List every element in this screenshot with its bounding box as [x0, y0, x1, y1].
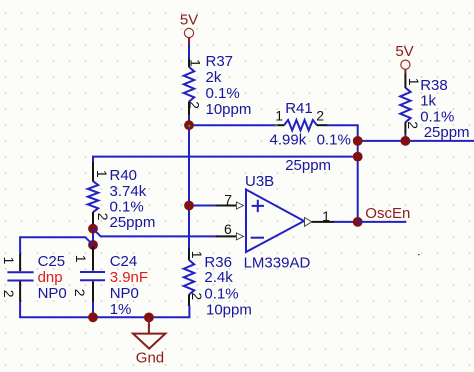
svg-text:2: 2	[72, 289, 88, 297]
op-amp U3B	[244, 173, 311, 272]
resistor R40	[88, 162, 156, 231]
wire output to OscEn	[334, 221, 358, 223]
wire R41 pin 2 to output node	[327, 125, 358, 222]
svg-text:NP0: NP0	[110, 285, 139, 302]
svg-text:2: 2	[316, 107, 324, 123]
wire R40 to output node	[93, 156, 358, 158]
svg-text:1: 1	[1, 257, 17, 265]
stray mark	[418, 254, 420, 255]
svg-text:0.1%: 0.1%	[204, 285, 238, 302]
resistor R37	[184, 53, 252, 118]
capacitor C25	[1, 253, 67, 302]
wire output pull-up rail	[358, 140, 474, 142]
power port 5V (right)	[395, 43, 413, 74]
svg-text:1: 1	[188, 59, 204, 67]
wire 5V to R37	[188, 44, 190, 60]
junction R40-pin6 node	[88, 224, 98, 234]
svg-text:1: 1	[94, 170, 110, 178]
wire node to comparator pin 6	[93, 229, 217, 237]
svg-text:10ppm: 10ppm	[206, 302, 252, 319]
resistor R38	[400, 74, 469, 142]
svg-text:1: 1	[73, 255, 89, 263]
svg-text:LM339AD: LM339AD	[244, 254, 311, 271]
svg-text:C25: C25	[38, 253, 66, 270]
junction output-R40 node	[353, 152, 363, 162]
svg-text:2: 2	[1, 290, 17, 298]
svg-text:1: 1	[275, 107, 283, 123]
junction C24 bottom	[88, 312, 98, 322]
svg-text:25ppm: 25ppm	[110, 214, 156, 231]
svg-text:7: 7	[224, 191, 232, 207]
capacitor C24	[72, 245, 148, 318]
svg-text:4.99k: 4.99k	[270, 132, 307, 149]
pin 6	[216, 221, 244, 240]
wire R40 top stub	[92, 156, 94, 163]
svg-text:2k: 2k	[206, 69, 222, 86]
svg-text:1%: 1%	[110, 301, 132, 318]
resistor R41	[270, 100, 351, 174]
junction output-R38 node	[353, 136, 363, 146]
svg-text:U3B: U3B	[245, 173, 274, 190]
svg-text:2.4k: 2.4k	[204, 269, 233, 286]
wire bottom rail	[20, 302, 189, 318]
wire OscEn stub	[358, 221, 407, 223]
junction node A	[184, 120, 194, 130]
svg-text:R41: R41	[285, 100, 313, 117]
junction R38 bottom	[401, 136, 411, 146]
junction pin7 node	[184, 201, 194, 211]
svg-text:6: 6	[224, 221, 232, 237]
wire R38 to output net	[404, 134, 406, 141]
svg-text:25ppm: 25ppm	[424, 124, 470, 141]
svg-text:1: 1	[322, 208, 330, 224]
svg-text:5V: 5V	[395, 43, 413, 60]
svg-text:C24: C24	[110, 253, 138, 270]
svg-text:0.1%: 0.1%	[420, 108, 454, 125]
wire C24 bottom stub	[92, 302, 94, 318]
svg-text:Gnd: Gnd	[136, 349, 164, 366]
junction C24-C25 node	[88, 240, 98, 250]
wire node A to R41 pin 1	[189, 124, 276, 126]
svg-text:5V: 5V	[180, 12, 198, 29]
wire pin 7 from node A branch	[189, 205, 217, 207]
wire R37 to node A	[188, 115, 190, 125]
ground Gnd	[133, 317, 165, 366]
svg-text:1: 1	[189, 251, 205, 259]
resistor R36	[184, 249, 252, 319]
wire node A down to R36	[188, 125, 190, 249]
svg-text:0.1%: 0.1%	[317, 132, 351, 149]
junction ground node	[144, 313, 154, 323]
junction output node	[353, 217, 363, 227]
svg-text:25ppm: 25ppm	[285, 157, 331, 174]
pin 1 output	[305, 208, 335, 226]
svg-text:0.1%: 0.1%	[110, 198, 144, 215]
svg-text:2: 2	[187, 101, 203, 109]
pin 7	[216, 191, 244, 209]
svg-text:R40: R40	[110, 167, 138, 184]
svg-text:R37: R37	[206, 53, 234, 70]
svg-text:1k: 1k	[420, 93, 436, 110]
svg-text:dnp: dnp	[38, 269, 63, 286]
wire R40 to C24 node	[92, 227, 94, 246]
power port 5V (left)	[180, 12, 198, 45]
svg-text:10ppm: 10ppm	[206, 101, 252, 118]
svg-text:NP0: NP0	[38, 285, 67, 302]
wire C25 to node	[20, 237, 93, 255]
svg-text:3.9nF: 3.9nF	[110, 269, 148, 286]
svg-text:2: 2	[405, 121, 421, 129]
svg-text:OscEn: OscEn	[365, 205, 410, 222]
svg-text:2: 2	[189, 292, 205, 300]
svg-text:R38: R38	[420, 77, 448, 94]
svg-text:0.1%: 0.1%	[206, 85, 240, 102]
